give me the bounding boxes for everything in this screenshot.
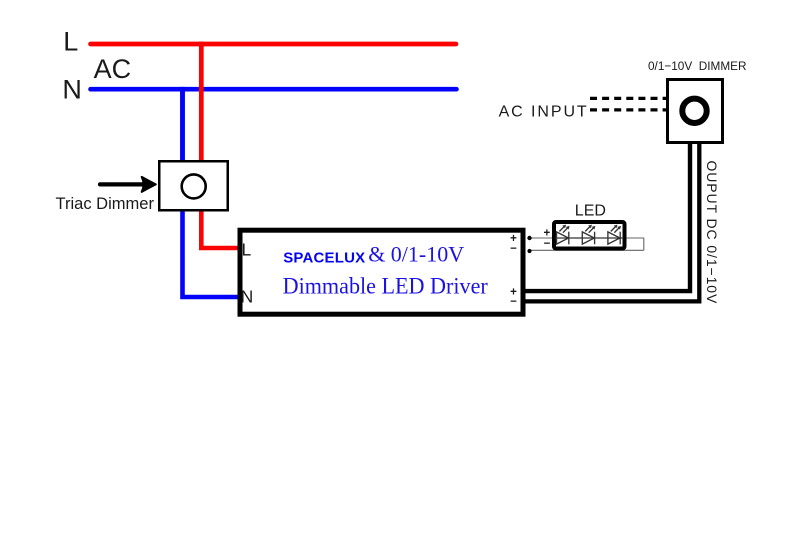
- svg-text:0/1−10V DIMMER: 0/1−10V DIMMER: [648, 59, 747, 73]
- svg-text:& 0/1-10V: & 0/1-10V: [368, 242, 464, 267]
- svg-text:L: L: [63, 27, 78, 57]
- svg-text:OUPUT DC 0/1−10V: OUPUT DC 0/1−10V: [704, 161, 720, 305]
- svg-text:N: N: [62, 75, 82, 105]
- svg-text:SPACELUX: SPACELUX: [283, 249, 365, 266]
- svg-text:L: L: [242, 239, 252, 259]
- svg-text:Dimmable LED Driver: Dimmable LED Driver: [283, 273, 489, 298]
- svg-text:−: −: [510, 243, 517, 255]
- svg-text:−: −: [510, 296, 517, 308]
- svg-text:−: −: [544, 238, 551, 250]
- svg-text:N: N: [241, 287, 254, 307]
- svg-text:LED: LED: [575, 203, 606, 220]
- svg-text:AC INPUT: AC INPUT: [499, 104, 588, 121]
- svg-text:Triac Dimmer: Triac Dimmer: [56, 194, 155, 213]
- svg-text:AC: AC: [94, 54, 132, 84]
